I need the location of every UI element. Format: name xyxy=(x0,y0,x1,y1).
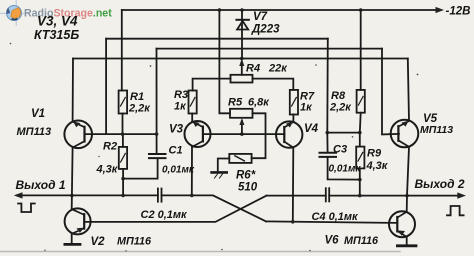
svg-text:V3: V3 xyxy=(169,124,184,136)
svg-text:1к: 1к xyxy=(300,102,313,114)
transistor V4 xyxy=(276,121,302,147)
pulse symbol output1 xyxy=(18,204,35,213)
svg-text:КТ315Б: КТ315Б xyxy=(34,28,79,42)
wire R5 right lead down to R6* xyxy=(252,113,266,158)
svg-text:4,3к: 4,3к xyxy=(366,160,389,172)
wire C1 bottom lead xyxy=(157,159,159,179)
wire R7 bottom to V4 xyxy=(292,115,294,122)
svg-text:V4: V4 xyxy=(304,123,319,135)
wire diode vertical xyxy=(241,10,243,59)
logo globe xyxy=(0,0,29,26)
svg-text:МП116: МП116 xyxy=(344,235,379,247)
wire line2 left vertical xyxy=(156,49,158,153)
svg-text:C4 0,1мк: C4 0,1мк xyxy=(312,211,360,223)
capacitor C1 xyxy=(149,154,166,158)
wire R8 bottom xyxy=(359,113,362,133)
transistor V3 xyxy=(185,121,211,147)
svg-text:R1: R1 xyxy=(130,91,144,103)
wire C3 bottom lead xyxy=(328,158,360,180)
wire W1 right of C2 to cross xyxy=(162,195,267,221)
wire R2 bottom xyxy=(122,169,124,196)
svg-text:R9: R9 xyxy=(367,148,382,160)
transistor V1 xyxy=(64,121,92,149)
wire C3node to R8node xyxy=(327,132,360,134)
wire line3 left vertical / V1 emitter lead xyxy=(72,59,74,122)
svg-text:V3, V4: V3, V4 xyxy=(37,14,78,29)
svg-text:0,01мк: 0,01мк xyxy=(162,165,195,176)
svg-text:МП116: МП116 xyxy=(117,236,152,248)
wire line2 right vertical xyxy=(382,49,399,135)
svg-text:C1: C1 xyxy=(169,145,183,157)
svg-text:Д223: Д223 xyxy=(251,24,280,36)
resistor R1 xyxy=(119,91,128,114)
wire V1 base line xyxy=(85,133,158,135)
node W2-V5V6 xyxy=(405,194,409,198)
resistor R9 xyxy=(356,147,364,169)
capacitor C3 xyxy=(320,153,337,157)
node rail-R8 xyxy=(359,8,363,12)
node R9-C3 bottom xyxy=(358,178,362,182)
wire W2 with C4 gap xyxy=(267,195,462,197)
diode V7 xyxy=(236,20,249,30)
node rail-R5 xyxy=(218,8,222,12)
node wiper-bases xyxy=(240,132,244,136)
wire R1 top vertical xyxy=(121,10,123,91)
wire R5 left vertical xyxy=(219,10,230,113)
wire line3 (V1 top to V5 top) xyxy=(73,58,408,60)
wire C3 top lead xyxy=(326,133,328,152)
wire R3 bottom to V3 xyxy=(191,114,193,122)
transistor V2 xyxy=(65,208,91,234)
svg-text:C2 0,1мк: C2 0,1мк xyxy=(141,209,189,221)
wire line3 right vertical / V5 emitter lead xyxy=(408,59,409,121)
ground R6* xyxy=(212,172,227,178)
wire R4 wiper arrow xyxy=(241,62,243,75)
svg-text:C3: C3 xyxy=(333,144,347,156)
resistor R5 xyxy=(230,109,253,118)
resistor R8 xyxy=(357,90,365,113)
svg-text:V2: V2 xyxy=(91,236,106,248)
svg-text:V7: V7 xyxy=(253,11,268,23)
transistor V5 xyxy=(391,120,419,148)
power rail xyxy=(122,9,438,11)
pulse symbol output2 xyxy=(447,206,464,215)
output2 arrow xyxy=(457,192,466,198)
node V6base-V4 xyxy=(291,220,295,224)
wire output1 with arrow xyxy=(17,194,158,196)
wire R2C1 bottom link xyxy=(123,178,158,180)
node W1-R2C1 xyxy=(121,194,125,198)
wire V6 base line xyxy=(266,221,397,223)
wire R1 bottom xyxy=(122,114,124,135)
wire R4 right to R7 top xyxy=(253,79,294,90)
wire R3 top to R4 left xyxy=(193,79,231,91)
scan artifact bottom line xyxy=(0,251,400,253)
svg-text:1к: 1к xyxy=(174,101,187,113)
node diode-line3 xyxy=(240,57,244,61)
svg-text:0,01мк: 0,01мк xyxy=(329,164,362,175)
svg-text:R5: R5 xyxy=(228,97,243,109)
resistor R6* xyxy=(229,154,251,163)
node W1-V1V2 xyxy=(70,194,74,198)
wire V4 bottom down xyxy=(292,148,295,222)
svg-text:6,8к: 6,8к xyxy=(248,97,270,109)
resistor R3 xyxy=(189,91,197,114)
wire V5 bottom down xyxy=(407,147,409,196)
resistor R2 xyxy=(119,147,127,169)
resistor R7 xyxy=(290,90,298,115)
node R8-R9-base xyxy=(358,131,362,135)
resistor R4 xyxy=(231,75,253,83)
wire line1 right vertical xyxy=(326,39,329,133)
scan speckles xyxy=(10,43,419,252)
wire line1 (V1 base to C3 node) xyxy=(106,38,328,40)
svg-text:510: 510 xyxy=(238,182,258,194)
transistor V6 xyxy=(389,211,415,237)
wire R9 bottom xyxy=(359,168,361,195)
svg-text:R3: R3 xyxy=(174,89,188,101)
wire V6 top xyxy=(406,196,408,212)
capacitor C2 xyxy=(158,189,162,202)
svg-text:R4: R4 xyxy=(246,63,260,75)
wire R6* left to ground xyxy=(218,159,230,172)
svg-text:4,3к: 4,3к xyxy=(96,164,119,176)
wire line1 left vertical xyxy=(105,39,107,134)
node base-C1 xyxy=(155,132,159,136)
svg-text:V1: V1 xyxy=(31,108,45,120)
svg-text:2,2к: 2,2к xyxy=(329,102,352,114)
svg-text:22к: 22к xyxy=(268,63,288,75)
wire R8 top vertical xyxy=(360,10,362,90)
ground V6 xyxy=(397,244,416,247)
node base-R1R2 xyxy=(121,132,125,136)
node rail-V7 xyxy=(240,8,244,12)
wire V3-V4 base line xyxy=(203,133,285,135)
ground V2 xyxy=(65,243,80,246)
node C3 top xyxy=(326,131,330,135)
wire V1 collector down xyxy=(71,148,74,196)
svg-text:Выход 2: Выход 2 xyxy=(415,177,465,191)
wire V2 top xyxy=(71,195,73,209)
svg-text:МП113: МП113 xyxy=(17,126,52,138)
node W1-V3 xyxy=(190,194,194,198)
power arrow xyxy=(436,7,445,13)
node R2-C1 bottom xyxy=(121,177,125,181)
svg-text:МП113: МП113 xyxy=(420,124,453,136)
wire R2 top xyxy=(122,134,124,147)
svg-text:V6: V6 xyxy=(325,235,340,247)
node W2-R9 xyxy=(358,194,362,198)
svg-text:R6*: R6* xyxy=(236,170,256,182)
capacitor C4 xyxy=(326,188,329,201)
svg-text:2,2к: 2,2к xyxy=(128,103,151,115)
wire V2 base to cross xyxy=(85,196,267,222)
svg-text:R2: R2 xyxy=(103,141,117,153)
svg-text:Выход 1: Выход 1 xyxy=(16,178,66,192)
wire line2 (C1 top to V5 base) xyxy=(157,48,383,50)
wire V6 emitter to ground xyxy=(406,237,408,245)
wire R5 wiper arrow xyxy=(241,121,243,134)
wire V3 bottom down xyxy=(191,147,193,195)
wire V2 emitter to ground xyxy=(71,234,73,243)
svg-text:R8: R8 xyxy=(331,90,346,102)
wire R9 top xyxy=(359,133,361,147)
svg-text:-12В: -12В xyxy=(446,6,471,18)
